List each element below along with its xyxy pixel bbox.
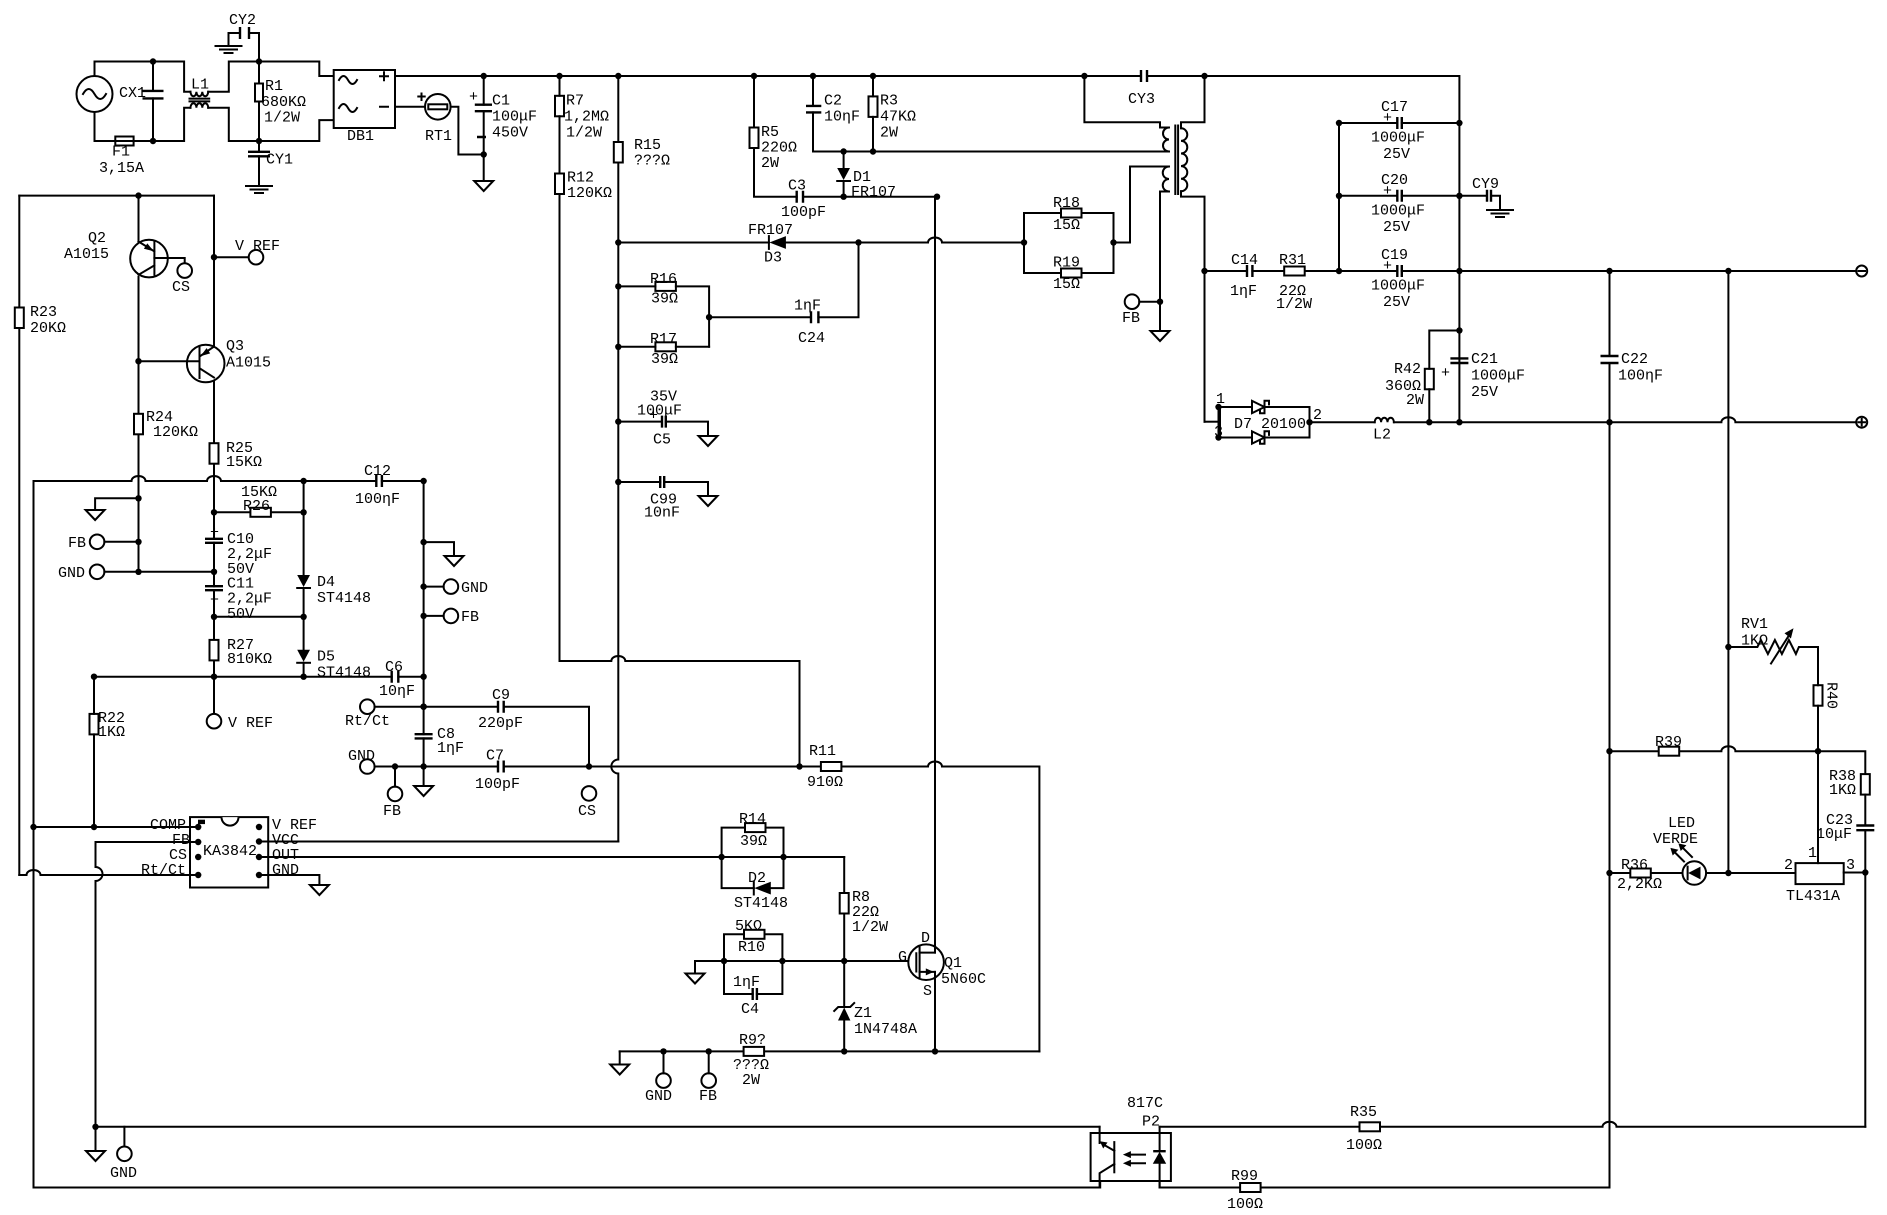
svg-text:C9: C9 bbox=[492, 687, 510, 704]
svg-text:450V: 450V bbox=[492, 125, 528, 142]
resistor R27 bbox=[210, 640, 219, 661]
resistor R35 bbox=[1360, 1122, 1381, 1131]
wire FB column with hop bbox=[96, 842, 103, 1127]
svg-text:P2: P2 bbox=[1142, 1114, 1160, 1131]
capacitor C20 bbox=[1371, 172, 1425, 236]
svg-text:C3: C3 bbox=[788, 178, 806, 195]
svg-text:5KΩ: 5KΩ bbox=[735, 918, 762, 935]
svg-text:ST4148: ST4148 bbox=[734, 895, 788, 912]
R22 labels bbox=[98, 710, 125, 741]
capacitor C10 bbox=[205, 525, 272, 579]
svg-text:3: 3 bbox=[1846, 857, 1855, 874]
svg-text:D4: D4 bbox=[317, 574, 335, 591]
svg-text:D3: D3 bbox=[764, 250, 782, 267]
svg-text:25V: 25V bbox=[1383, 294, 1410, 311]
resistor R24 bbox=[134, 414, 143, 435]
svg-text:2W: 2W bbox=[880, 125, 898, 142]
svg-text:1ηF: 1ηF bbox=[733, 974, 760, 991]
pad FB bottom mid bbox=[701, 1073, 716, 1088]
wire output plus row bbox=[1394, 417, 1856, 422]
pad GND row3 bbox=[360, 759, 375, 774]
wire top rail to L1 bbox=[95, 62, 191, 92]
svg-text:C7: C7 bbox=[486, 748, 504, 765]
wire C20 row bbox=[1339, 195, 1485, 197]
ground aux winding bbox=[1151, 331, 1170, 341]
svg-text:R5: R5 bbox=[761, 124, 779, 141]
node RV1 left junction bbox=[1725, 644, 1731, 650]
D4 labels bbox=[317, 574, 371, 607]
ground chain bbox=[445, 556, 464, 566]
svg-text:ST4148: ST4148 bbox=[317, 665, 371, 682]
transformer T1 primary winding bbox=[1084, 76, 1169, 152]
wire bottom rail right R99 bbox=[1160, 1181, 1610, 1188]
wire R39 row bbox=[1610, 746, 1866, 774]
wire OUT row bbox=[259, 856, 844, 858]
node R15 column taps bbox=[615, 239, 621, 485]
svg-text:R14: R14 bbox=[739, 811, 766, 828]
wire chain gnd branch bbox=[424, 542, 454, 556]
svg-text:R19: R19 bbox=[1053, 255, 1080, 272]
svg-text:R42: R42 bbox=[1394, 361, 1421, 378]
ground Q2 branch bbox=[86, 510, 105, 520]
svg-text:CY3: CY3 bbox=[1128, 91, 1155, 108]
R19 labels bbox=[1053, 255, 1080, 294]
diode D2 bbox=[754, 882, 771, 895]
node R18-R19 junctions bbox=[1021, 239, 1117, 245]
svg-text:2,2KΩ: 2,2KΩ bbox=[1617, 876, 1662, 893]
svg-text:+: + bbox=[1441, 365, 1450, 382]
node R42 top junction bbox=[1456, 327, 1462, 333]
svg-text:810KΩ: 810KΩ bbox=[227, 651, 272, 668]
pad CS Q2 bbox=[177, 263, 192, 278]
pad GND mid bbox=[444, 579, 459, 594]
node aux winding FB junction bbox=[1157, 299, 1163, 305]
svg-text:LED: LED bbox=[1668, 815, 1695, 832]
svg-text:GND: GND bbox=[58, 565, 85, 582]
capacitor C9 bbox=[498, 701, 504, 713]
R3 labels bbox=[880, 93, 916, 142]
resistor R26 bbox=[250, 508, 271, 517]
IC U1 KA3842 bbox=[190, 817, 268, 887]
wire gate row gnd bbox=[694, 961, 696, 974]
node gate row junctions bbox=[721, 958, 848, 964]
pad GND left bbox=[90, 565, 105, 580]
thermistor RT1 bbox=[418, 94, 452, 146]
resistor R3 bbox=[869, 96, 878, 117]
svg-text:S: S bbox=[923, 983, 932, 1000]
svg-text:C22: C22 bbox=[1621, 351, 1648, 368]
svg-text:1/2W: 1/2W bbox=[1276, 296, 1312, 313]
svg-text:1KΩ: 1KΩ bbox=[1741, 633, 1768, 650]
svg-text:D7 20100: D7 20100 bbox=[1234, 416, 1306, 433]
svg-text:10ηF: 10ηF bbox=[824, 109, 860, 126]
resistor R12 bbox=[555, 174, 564, 195]
ground KA3842 bbox=[310, 885, 329, 895]
ground gate row bbox=[686, 974, 705, 984]
wire V_REF pad row bbox=[214, 256, 249, 258]
svg-text:1ηF: 1ηF bbox=[1230, 283, 1257, 300]
svg-text:220pF: 220pF bbox=[478, 715, 523, 732]
svg-text:100Ω: 100Ω bbox=[1227, 1196, 1263, 1213]
svg-text:FB: FB bbox=[699, 1088, 717, 1105]
D5 labels bbox=[317, 649, 371, 682]
svg-text:15KΩ: 15KΩ bbox=[226, 454, 262, 471]
wire RT1 to C1 bottom bbox=[451, 107, 484, 155]
node C12 chain junctions bbox=[420, 539, 426, 770]
svg-text:120KΩ: 120KΩ bbox=[567, 185, 612, 202]
svg-text:A1015: A1015 bbox=[226, 355, 271, 372]
node KA3842 left pins bbox=[195, 824, 201, 878]
wire L1 top to rail right bbox=[208, 62, 334, 92]
resistor R10 bbox=[744, 930, 765, 939]
svg-text:L1: L1 bbox=[191, 77, 209, 94]
output plus terminal bbox=[1856, 417, 1867, 428]
wire D3 row right bbox=[786, 238, 1024, 243]
diode D1 bbox=[837, 168, 850, 181]
resistor R39 bbox=[1659, 747, 1680, 756]
svg-text:R12: R12 bbox=[567, 170, 594, 187]
capacitor C8 bbox=[415, 726, 464, 757]
svg-text:V REF: V REF bbox=[228, 715, 273, 732]
wire R18-R19 parallel brackets bbox=[1024, 213, 1114, 273]
R99 labels bbox=[1227, 1168, 1263, 1213]
svg-text:25V: 25V bbox=[1471, 384, 1498, 401]
resistor R42 bbox=[1425, 369, 1434, 390]
svg-text:1: 1 bbox=[1808, 845, 1817, 862]
wire FB pad row bbox=[104, 541, 138, 543]
svg-text:Z1: Z1 bbox=[854, 1005, 872, 1022]
wire CX1 taps bbox=[152, 62, 154, 142]
svg-text:V REF: V REF bbox=[235, 238, 280, 255]
node CY2 rail junction bbox=[256, 58, 262, 64]
svg-text:1N4748A: 1N4748A bbox=[854, 1021, 917, 1038]
svg-text:100μF: 100μF bbox=[492, 109, 537, 126]
wire COMP row bbox=[34, 826, 199, 828]
LED VERDE bbox=[1653, 815, 1706, 885]
R23 labels bbox=[30, 304, 66, 337]
svg-text:25V: 25V bbox=[1383, 219, 1410, 236]
svg-text:220Ω: 220Ω bbox=[761, 140, 797, 157]
svg-text:+: + bbox=[1383, 110, 1392, 127]
node COMP junctions bbox=[30, 824, 97, 830]
svg-text:+: + bbox=[1383, 183, 1392, 200]
wire snubber row to transformer bbox=[813, 151, 1169, 153]
wire left column R23 bbox=[18, 196, 20, 875]
pad V_REF top bbox=[249, 250, 264, 265]
svg-text:C14: C14 bbox=[1231, 252, 1258, 269]
AC source V1 bbox=[77, 76, 113, 112]
resistor R18 bbox=[1061, 209, 1082, 218]
svg-text:FB: FB bbox=[68, 535, 86, 552]
node C9 row junctions bbox=[420, 704, 426, 710]
resistor R11 bbox=[821, 762, 842, 771]
svg-text:C2: C2 bbox=[824, 93, 842, 110]
svg-text:1ηF: 1ηF bbox=[794, 298, 821, 315]
resistor R5 bbox=[750, 128, 759, 149]
svg-text:FB: FB bbox=[1122, 310, 1140, 327]
svg-text:100Ω: 100Ω bbox=[1346, 1137, 1382, 1154]
node Q2 column junctions bbox=[135, 358, 141, 545]
svg-text:1/2W: 1/2W bbox=[566, 125, 602, 142]
wire R38-C23 chain bbox=[1864, 795, 1866, 1127]
svg-text:R40: R40 bbox=[1823, 682, 1840, 709]
svg-text:120KΩ: 120KΩ bbox=[153, 424, 198, 441]
svg-text:CS: CS bbox=[172, 279, 190, 296]
svg-text:1000μF: 1000μF bbox=[1371, 202, 1425, 219]
wire FB rail to optocoupler bbox=[96, 1126, 1100, 1128]
svg-text:15Ω: 15Ω bbox=[1053, 217, 1080, 234]
svg-text:Q2: Q2 bbox=[88, 230, 106, 247]
svg-text:GND: GND bbox=[348, 748, 375, 765]
node snubber row bbox=[840, 148, 876, 154]
R9 labels bbox=[733, 1032, 769, 1089]
node R16-R17-C24 junction bbox=[706, 314, 712, 320]
svg-text:GND: GND bbox=[461, 580, 488, 597]
svg-text:910Ω: 910Ω bbox=[807, 774, 843, 791]
potentiometer RV1 bbox=[1728, 616, 1818, 664]
svg-text:A1015: A1015 bbox=[64, 246, 109, 263]
wire CY9 to ground bbox=[1491, 196, 1500, 208]
wire CY2 right to rail bbox=[249, 33, 259, 62]
svg-text:R1: R1 bbox=[265, 78, 283, 95]
capacitor CY2 bbox=[229, 12, 256, 39]
wire output minus row bbox=[1205, 270, 1857, 272]
C7 labels bbox=[475, 748, 520, 794]
capacitor C99 bbox=[644, 476, 680, 522]
C9 labels bbox=[478, 687, 523, 732]
resistor R25 bbox=[210, 443, 219, 464]
node R9 row junctions bbox=[660, 1048, 938, 1054]
svg-text:817C: 817C bbox=[1127, 1095, 1163, 1112]
svg-text:R3: R3 bbox=[880, 93, 898, 110]
optocoupler P2 817C bbox=[1091, 1095, 1171, 1188]
inductor L1 bbox=[190, 77, 210, 108]
svg-text:R15: R15 bbox=[634, 137, 661, 154]
pad FB transformer bbox=[1125, 294, 1140, 309]
wire Z1 stem bbox=[843, 961, 845, 1051]
svg-text:CS: CS bbox=[578, 803, 596, 820]
wire R14 bracket bbox=[722, 828, 784, 857]
capacitor C23 bbox=[1816, 812, 1874, 843]
node FB rail left junction bbox=[92, 1124, 98, 1130]
svg-text:25V: 25V bbox=[1383, 146, 1410, 163]
transformer T1 aux winding bbox=[1114, 167, 1170, 332]
svg-text:39Ω: 39Ω bbox=[740, 833, 767, 850]
node CX1 junctions bbox=[150, 58, 156, 144]
wire RV1-R40 branch bbox=[1817, 647, 1819, 751]
capacitor C17 bbox=[1371, 99, 1425, 163]
capacitor C5 bbox=[637, 389, 682, 449]
wire R8 to gate row bbox=[843, 914, 845, 962]
capacitor C19 bbox=[1371, 247, 1425, 311]
capacitor C6 bbox=[392, 671, 399, 683]
capacitor CX1 bbox=[119, 85, 164, 102]
pad CS mid bbox=[582, 786, 597, 801]
svg-text:47KΩ: 47KΩ bbox=[880, 109, 916, 126]
inductor L2 bbox=[1373, 418, 1394, 444]
node KA3842 right pins bbox=[256, 824, 262, 878]
ground C99 bbox=[699, 496, 718, 506]
wire R9 row bbox=[620, 1050, 1040, 1052]
KA3842 pin labels bbox=[141, 817, 317, 879]
resistor R8 bbox=[840, 893, 849, 914]
C12 labels bbox=[355, 463, 400, 508]
capacitor C2 bbox=[806, 93, 860, 126]
C6 labels bbox=[379, 659, 415, 700]
svg-text:C4: C4 bbox=[741, 1001, 759, 1018]
node GND row junction bbox=[135, 569, 141, 575]
wire R15 column bbox=[611, 76, 618, 842]
svg-text:D: D bbox=[921, 930, 930, 947]
svg-text:+: + bbox=[210, 525, 219, 542]
ground CY2 bbox=[216, 46, 242, 53]
capacitor CY1 bbox=[248, 152, 293, 169]
wire C1 stem bbox=[483, 76, 485, 181]
resistor R19 bbox=[1061, 269, 1082, 278]
node plus row junctions bbox=[1426, 419, 1613, 425]
svg-text:CY1: CY1 bbox=[266, 152, 293, 169]
D1 labels bbox=[851, 169, 896, 201]
node TL431 cathode junction bbox=[1862, 869, 1868, 875]
diode D4 bbox=[297, 575, 310, 588]
ground C8 chain bbox=[414, 786, 433, 796]
resistor R38 bbox=[1861, 774, 1870, 795]
wire R22 column bbox=[93, 677, 95, 827]
schottky rectifier D7 bbox=[1214, 391, 1322, 444]
resistor R14 bbox=[745, 823, 766, 832]
C4 labels bbox=[733, 974, 760, 1018]
capacitor C12 bbox=[376, 475, 382, 487]
svg-text:1KΩ: 1KΩ bbox=[1829, 782, 1856, 799]
R15 labels bbox=[634, 137, 670, 170]
pad V REF bottom bbox=[207, 714, 222, 729]
R27 labels bbox=[227, 637, 272, 668]
svg-text:RT1: RT1 bbox=[425, 128, 452, 145]
resistor R7 bbox=[555, 96, 564, 117]
capacitor C11 bbox=[205, 576, 272, 624]
zener Z1 bbox=[834, 1003, 917, 1038]
svg-text:10ηF: 10ηF bbox=[379, 683, 415, 700]
wire C4 bracket bbox=[724, 961, 782, 994]
output minus terminal bbox=[1856, 266, 1867, 277]
node D7 pins bbox=[1215, 404, 1312, 441]
wire Q3 emitter column bbox=[213, 196, 215, 714]
svg-text:2W: 2W bbox=[761, 155, 779, 172]
wire output cap left column bbox=[1338, 123, 1340, 271]
svg-text:RV1: RV1 bbox=[1741, 616, 1768, 633]
capacitor CY3 bbox=[1128, 70, 1155, 108]
wire F1 to L1 bottom bbox=[134, 108, 191, 141]
node HV rail taps bbox=[481, 73, 1088, 79]
R38 labels bbox=[1829, 768, 1856, 799]
svg-text:39Ω: 39Ω bbox=[651, 291, 678, 308]
svg-text:1/2W: 1/2W bbox=[852, 919, 888, 936]
wire feedback column right bbox=[1727, 271, 1729, 873]
ground C1 bbox=[474, 181, 493, 191]
transistor Q3 bbox=[139, 338, 272, 382]
svg-text:FR107: FR107 bbox=[748, 222, 793, 239]
wire R42 branch bbox=[1429, 331, 1459, 423]
C3 labels bbox=[781, 178, 826, 222]
diode D3 bbox=[769, 236, 786, 249]
wire C17 row bbox=[1339, 122, 1459, 124]
wire Q1 source column bbox=[934, 972, 936, 1052]
svg-text:CY9: CY9 bbox=[1472, 176, 1499, 193]
R7 labels bbox=[564, 93, 609, 142]
svg-text:FR107: FR107 bbox=[851, 184, 896, 201]
svg-text:+: + bbox=[469, 89, 478, 106]
svg-text:1/2W: 1/2W bbox=[264, 110, 300, 127]
node D3 row junctions bbox=[855, 239, 861, 245]
wire D2 bracket bbox=[722, 857, 784, 888]
svg-text:15Ω: 15Ω bbox=[1053, 276, 1080, 293]
node V_REF junction bbox=[211, 254, 217, 260]
wire GND pin row bbox=[259, 875, 319, 885]
wire R17 row bbox=[618, 346, 709, 348]
capacitor C3 bbox=[797, 191, 803, 203]
wire GND pad stem bbox=[123, 1127, 125, 1147]
C24 labels bbox=[794, 298, 825, 348]
resistor R16 bbox=[655, 282, 676, 291]
resistor R36 bbox=[1630, 869, 1651, 878]
svg-text:R18: R18 bbox=[1053, 195, 1080, 212]
transformer core bbox=[1175, 126, 1178, 195]
resistor R1 bbox=[255, 84, 263, 102]
resistor R9 bbox=[744, 1047, 765, 1056]
svg-text:R17: R17 bbox=[650, 331, 677, 348]
svg-text:1000μF: 1000μF bbox=[1471, 368, 1525, 385]
wire R35 row bbox=[1160, 1122, 1866, 1127]
ground CY1 bbox=[246, 186, 272, 193]
capacitor C7 bbox=[498, 761, 504, 773]
wire R9 row gnd bbox=[619, 1051, 621, 1064]
svg-text:GND: GND bbox=[272, 862, 299, 879]
node R1 bottom junction bbox=[256, 138, 262, 144]
capacitor C14 bbox=[1247, 265, 1252, 277]
wire gate row bbox=[695, 960, 916, 962]
wire C9 row bbox=[375, 707, 589, 767]
svg-text:3,15A: 3,15A bbox=[99, 160, 144, 177]
wire left mini rail bbox=[19, 195, 214, 197]
resistor R15 bbox=[614, 142, 623, 163]
wire C7 row bbox=[375, 762, 1040, 1052]
R17 labels bbox=[650, 331, 678, 368]
svg-text:C6: C6 bbox=[385, 659, 403, 676]
svg-text:D2: D2 bbox=[748, 870, 766, 887]
R14 labels bbox=[739, 811, 767, 850]
wire C5 row bbox=[618, 422, 708, 436]
resistor R31 bbox=[1284, 267, 1305, 276]
svg-text:ST4148: ST4148 bbox=[317, 590, 371, 607]
svg-text:1000μF: 1000μF bbox=[1371, 130, 1425, 147]
svg-text:KA3842: KA3842 bbox=[203, 843, 257, 860]
svg-text:1,2MΩ: 1,2MΩ bbox=[564, 109, 609, 126]
resistor R23 bbox=[15, 308, 24, 329]
R10 labels bbox=[735, 918, 765, 956]
wire Rt/Ct row bbox=[19, 870, 198, 875]
wire C24 row bbox=[709, 316, 811, 318]
wire OUT to R8 bbox=[843, 857, 845, 893]
wire C2 stem bbox=[812, 76, 814, 152]
svg-text:D5: D5 bbox=[317, 649, 335, 666]
wire R10 bracket bbox=[724, 934, 782, 961]
svg-text:Q3: Q3 bbox=[226, 338, 244, 355]
node minus row junctions bbox=[1336, 268, 1732, 274]
svg-text:100μF: 100μF bbox=[637, 403, 682, 420]
wire GND pad row bbox=[104, 571, 214, 573]
node Q3 column junctions bbox=[211, 509, 217, 680]
wire D3 node to C24 bbox=[818, 243, 858, 318]
